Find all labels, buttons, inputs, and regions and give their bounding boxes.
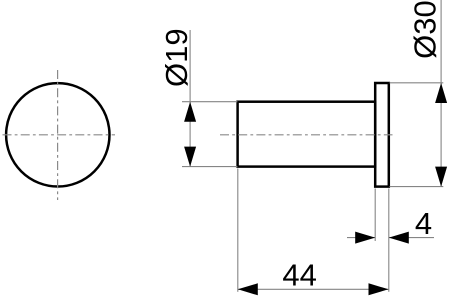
extension line top for dimension Ø19 xyxy=(182,101,237,103)
arrowhead 4 pointing left xyxy=(389,232,409,244)
arrowhead Ø19 up xyxy=(184,102,196,122)
extension line left for dimension 4 xyxy=(374,189,376,242)
dimension tail left for dimension 4 xyxy=(347,237,375,239)
side view flange xyxy=(375,83,389,187)
svg-text:Ø19: Ø19 xyxy=(159,28,194,87)
svg-text:Ø30: Ø30 xyxy=(408,0,443,59)
extension line right for dimension 4 xyxy=(388,189,390,292)
svg-text:4: 4 xyxy=(415,206,432,241)
arrowhead 4 pointing right xyxy=(355,232,375,244)
arrowhead Ø19 down xyxy=(184,147,196,167)
extension line left for dimension 44 xyxy=(237,169,239,292)
extension line top for dimension Ø30 xyxy=(390,82,444,84)
side view cylinder body xyxy=(238,102,376,167)
horizontal centerline of front view xyxy=(3,134,116,136)
arrowhead Ø30 down xyxy=(435,167,447,187)
horizontal centerline of side view xyxy=(220,134,393,136)
dimension line Ø30 xyxy=(440,0,442,187)
dimension line Ø19 xyxy=(189,30,191,167)
svg-text:44: 44 xyxy=(282,258,316,293)
arrowhead Ø30 up xyxy=(435,83,447,103)
arrowhead 44 pointing left xyxy=(238,283,258,295)
extension line bottom for dimension Ø19 xyxy=(182,166,237,168)
vertical centerline of front view xyxy=(57,70,59,200)
dimension tail right for dimension 4 xyxy=(389,237,434,239)
front view circle Ø30 xyxy=(6,83,109,186)
extension line bottom for dimension Ø30 xyxy=(390,186,444,188)
dimension line 44 xyxy=(238,288,389,290)
arrowhead 44 pointing right xyxy=(369,283,389,295)
